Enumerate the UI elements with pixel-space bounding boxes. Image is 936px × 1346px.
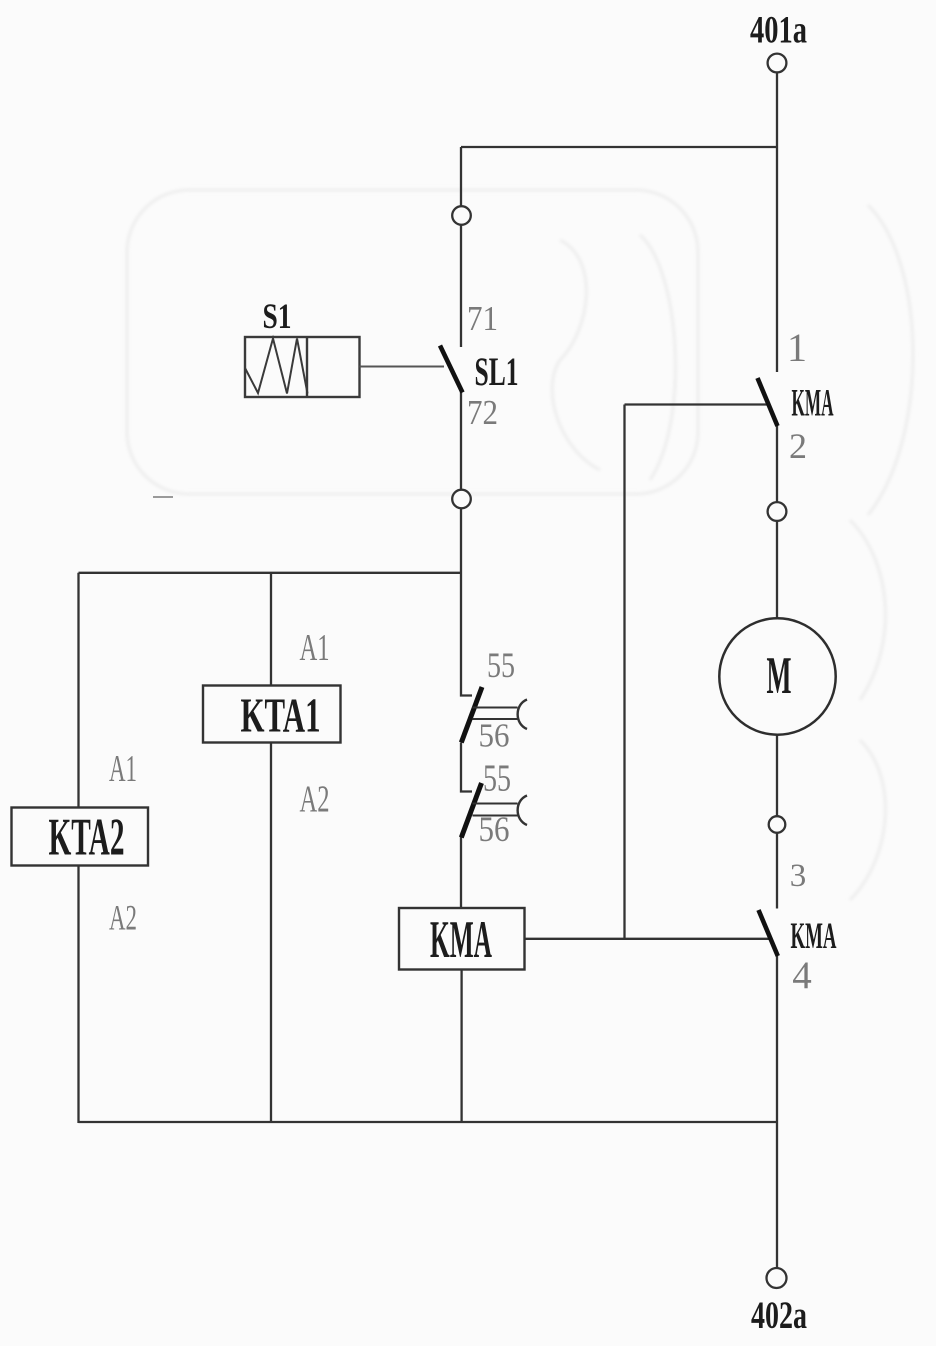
svg-text:A2: A2 [300, 779, 330, 821]
svg-text:4: 4 [792, 954, 812, 997]
svg-text:401a: 401a [750, 9, 807, 52]
wire to 402a terminal [776, 1122, 778, 1268]
contact KMA 1-2 blade [758, 378, 778, 426]
contact KMA 3-4 blade [759, 910, 778, 956]
svg-text:A1: A1 [109, 748, 137, 790]
wire KMA 4 to bottom bus [776, 956, 778, 1123]
svg-text:S1: S1 [263, 296, 292, 336]
svg-text:56: 56 [479, 718, 510, 755]
svg-text:KMA: KMA [792, 382, 834, 425]
svg-text:KMA: KMA [430, 911, 492, 969]
junction circle C [768, 502, 787, 521]
motor M circle [719, 618, 835, 734]
stray mark [153, 496, 173, 498]
relay coil KTA1 box [203, 686, 341, 743]
wire to KMA contact 3 [776, 833, 778, 909]
wire top bus [461, 146, 777, 148]
svg-text:71: 71 [467, 299, 498, 338]
wire 401a down to KMA contact 1 [776, 73, 778, 373]
switch SL1 blade [440, 346, 463, 393]
wire contact to KMA coil [460, 837, 462, 908]
wire SL1 pin 72 down [460, 392, 462, 490]
svg-text:55: 55 [483, 758, 511, 800]
junction circle A [452, 206, 471, 225]
svg-text:KTA1: KTA1 [241, 688, 321, 743]
wire KTA2 branch lower [77, 866, 79, 1124]
wire junction to motor [776, 521, 778, 619]
timed contact 55-56 lower [461, 783, 527, 838]
junction circle D [769, 816, 786, 833]
wire KTA2 branch upper [77, 573, 79, 808]
relay coil KTA2 box [12, 808, 149, 866]
svg-text:55: 55 [487, 645, 515, 685]
svg-text:402a: 402a [751, 1294, 807, 1337]
node 401a terminal circle [768, 54, 787, 73]
svg-text:A2: A2 [109, 898, 137, 938]
wire to mid bus [460, 509, 462, 574]
limit switch S1 actuator box [245, 337, 360, 397]
wire mid bus [79, 572, 462, 574]
svg-text:2: 2 [789, 426, 807, 466]
wire motor to junction D [776, 735, 778, 817]
svg-text:M: M [767, 647, 792, 705]
node 402a terminal circle [767, 1268, 787, 1288]
wire S1 to SL1 blade [360, 366, 445, 368]
wire link vertical [623, 405, 625, 939]
svg-text:1: 1 [787, 325, 807, 370]
svg-text:KTA2: KTA2 [49, 809, 125, 867]
svg-text:KMA: KMA [791, 916, 837, 957]
wire link to KMA contact 1-2 [625, 403, 771, 405]
wire KMA coil output right [525, 938, 771, 940]
svg-text:72: 72 [467, 393, 498, 432]
wire center branch to contact 55-56 top [461, 573, 472, 696]
wire between contacts [461, 743, 472, 792]
svg-text:A1: A1 [300, 627, 330, 669]
wire to SL1 pin 71 [460, 225, 462, 347]
svg-text:SL1: SL1 [475, 349, 519, 394]
contactor coil KMA box [399, 908, 525, 970]
svg-text:3: 3 [790, 858, 807, 894]
wire KMA coil down to bottom bus [460, 970, 462, 1124]
wire KMA 2 to junction [776, 426, 778, 503]
wire KTA1 branch lower [270, 743, 272, 1124]
wire left drop from top bus [460, 147, 462, 206]
timed contact 55-56 upper [461, 687, 527, 743]
wire KTA1 branch upper [270, 573, 272, 686]
junction circle B [452, 490, 471, 509]
wire bottom bus [79, 1121, 778, 1123]
svg-text:56: 56 [479, 809, 510, 849]
